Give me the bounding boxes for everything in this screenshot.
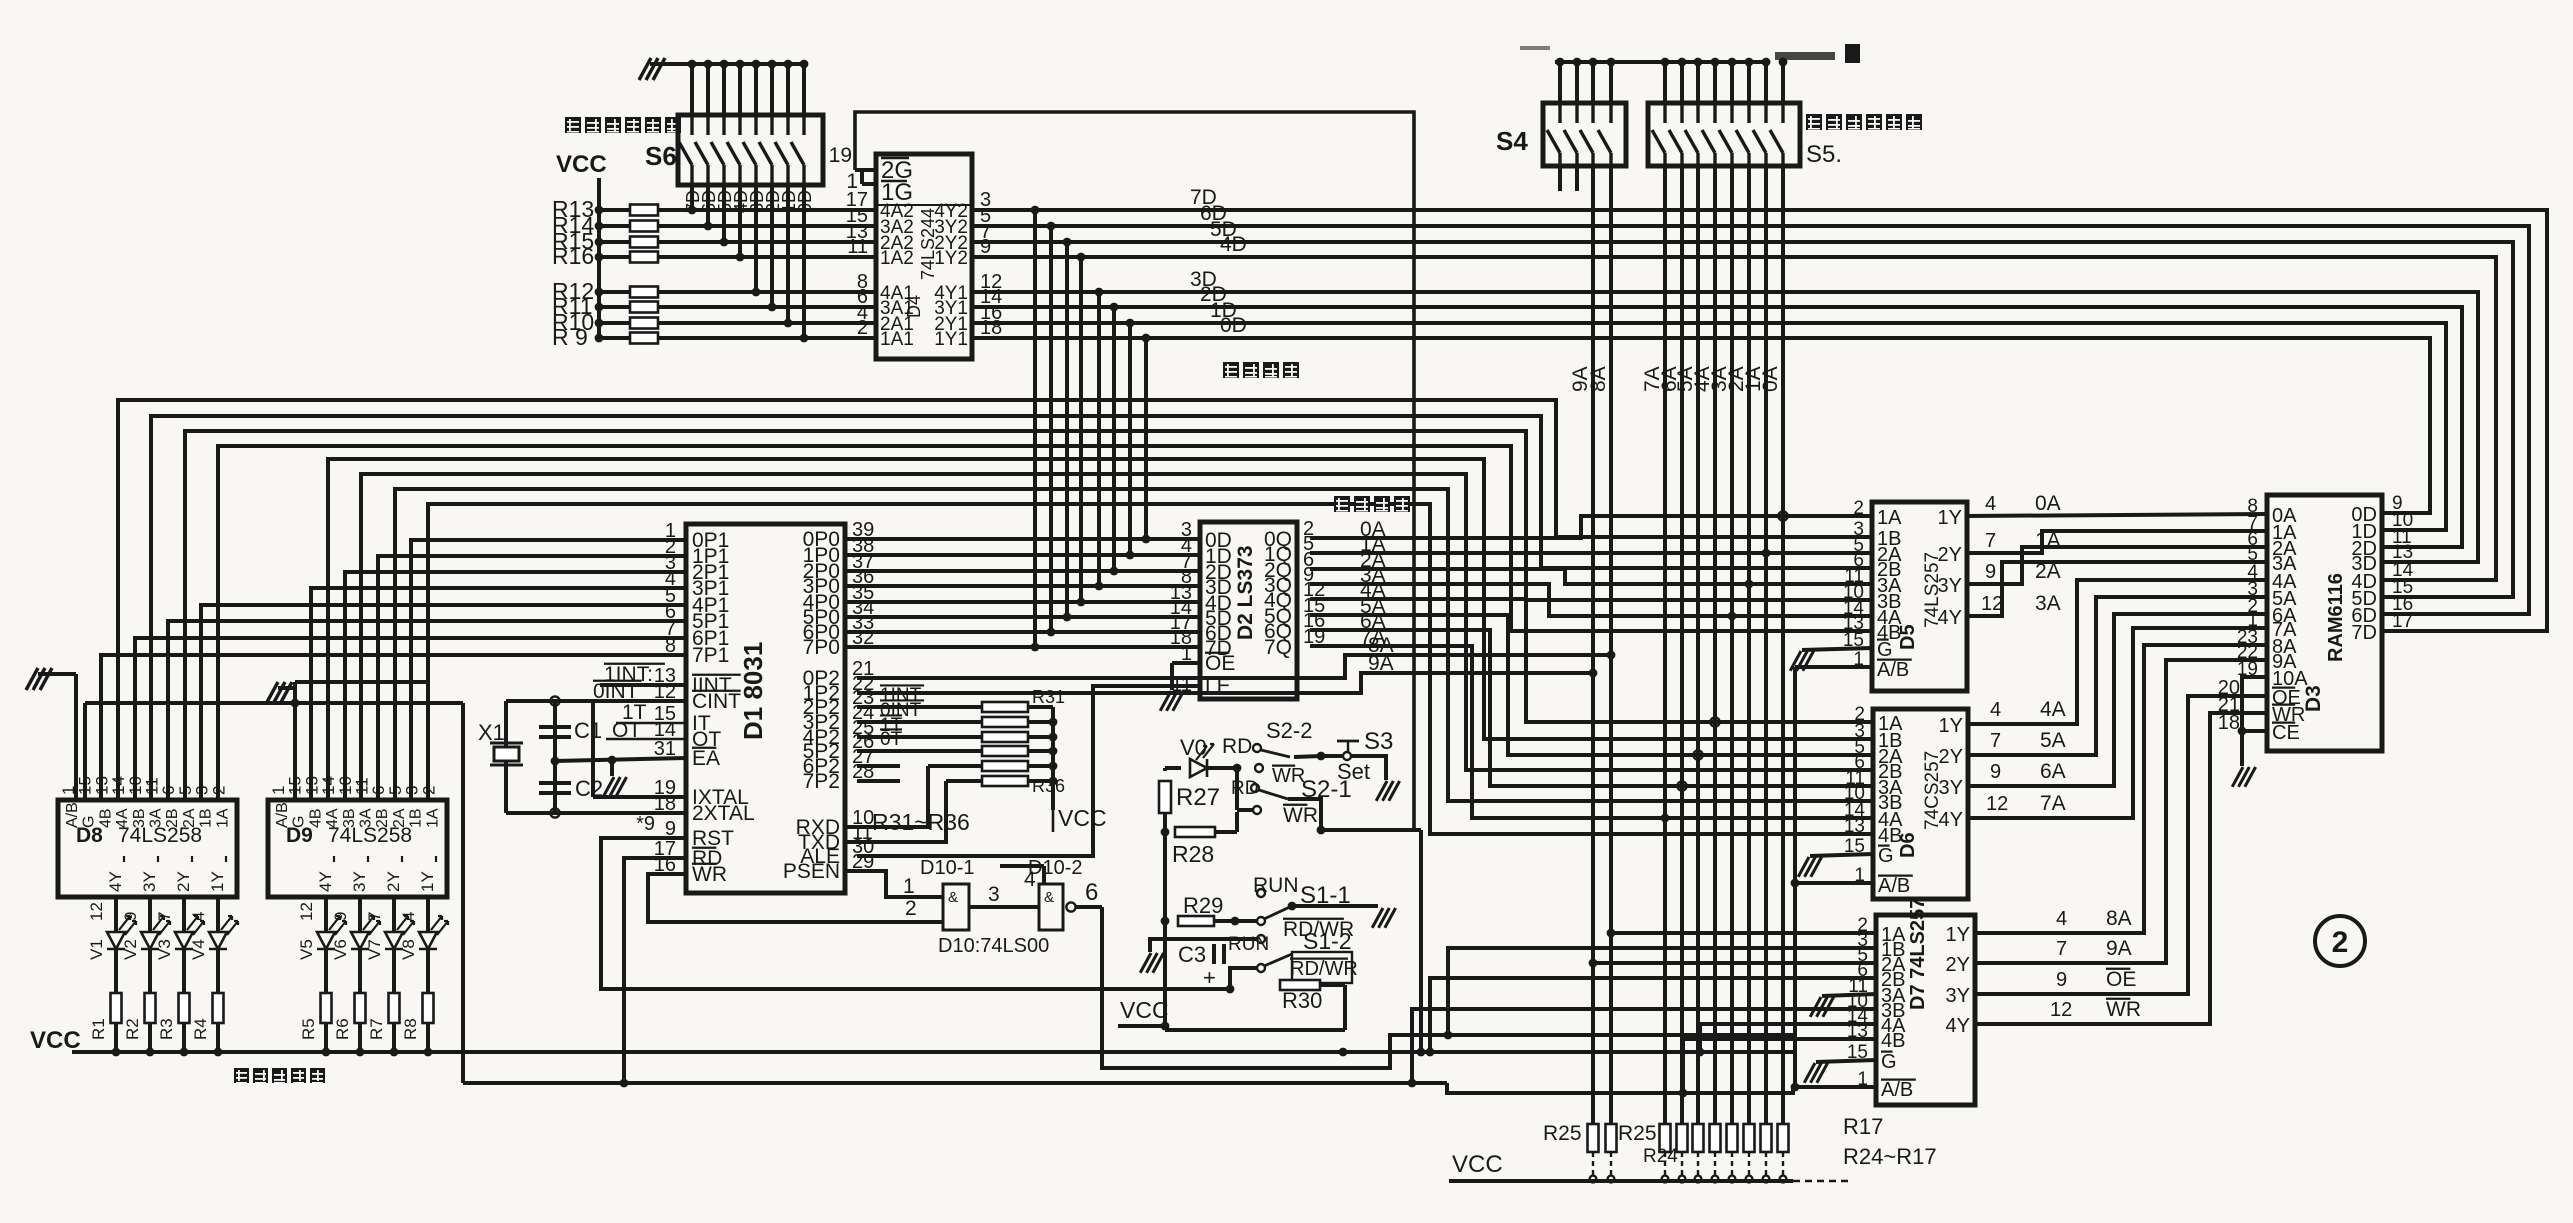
wire P0-4 [845,600,1200,604]
label R31~R36 [872,805,1107,835]
pin D3-18 [2218,712,2240,734]
wire P0-2 [845,569,1200,573]
svg-text:R5: R5 [299,1018,318,1040]
pin D2-6 [1303,549,1314,571]
resistor R28 [1172,812,1237,867]
pin D2-13 [1170,582,1192,604]
wire P0-5 [845,615,1200,619]
label addr 8A [1368,634,1394,657]
pin D2-15 [1303,595,1325,617]
wire bus 1D [972,323,2446,530]
label 5D vert [715,190,735,213]
svg-text:VCC: VCC [556,151,607,178]
svg-text:D4: D4 [904,295,924,318]
svg-text:S1-2: S1-2 [1303,928,1352,954]
wire C3 plus [1207,968,1257,993]
wire Gnet drop [461,703,465,1083]
resistor R36 [946,776,1053,786]
label vert 1A [1742,366,1765,392]
svg-text:2Y: 2Y [174,871,193,892]
svg-text:V2: V2 [121,939,140,960]
pin D3r-13 [2392,542,2413,563]
wire out9A [1975,660,2267,963]
svg-text:7A: 7A [2040,792,2066,815]
svg-text:D3: D3 [2302,685,2325,712]
svg-text:OE: OE [1205,652,1235,675]
wire addr2 [1310,569,1872,588]
label RDWR2 [1290,952,1358,983]
resistor R8 [401,949,434,1056]
svg-text:4A: 4A [114,808,131,828]
pin D3-7 [2247,513,2258,534]
pin D4-14 [980,286,1002,308]
wire D7 2B [1426,978,1876,1056]
svg-text:12: 12 [2050,999,2072,1021]
label p2 0T [880,729,903,750]
svg-text:4: 4 [2056,908,2067,930]
wire addr0 [1310,511,1872,538]
label vert 4A [1691,366,1714,392]
wire D7 3A gnd [1810,994,1876,1017]
wire D10 out [1066,879,1102,912]
wire 6A vert [1680,166,1684,1124]
pin D3-2 [2247,596,2258,617]
wire P2-28 stub [857,779,900,783]
resistor R12 [552,278,876,304]
wire D4 enable [855,112,1414,830]
resistor R13 [552,196,876,222]
svg-text:V0: V0 [1180,735,1207,760]
svg-text:1: 1 [903,875,915,898]
label vert 0A [1759,366,1782,392]
pin D6-10 [1844,783,1865,804]
wire S5 in 1783 [1781,62,1785,103]
wire S4 stub2 [1575,166,1579,191]
label VCC left [30,1027,81,1054]
svg-text:2: 2 [209,786,228,795]
svg-text:OE: OE [2106,968,2136,991]
wire tap 1D [1126,319,1135,560]
svg-text:D6: D6 [1897,832,1919,858]
wire D2 OE gnd [1160,663,1200,711]
label WR s22 [1272,765,1305,787]
pin D3-23 [2237,627,2258,648]
pin D5-13 [1843,613,1864,634]
label 4D vert [731,190,751,213]
label addr 7A [1360,626,1386,649]
resistor R4 [191,949,224,1056]
IC D1 8031 [686,524,845,893]
pin D3-6 [2247,529,2258,550]
wire S6-5D [720,185,729,246]
pin D3r-14 [2392,560,2414,581]
pin D3r-10 [2392,510,2413,531]
svg-text:R8: R8 [401,1018,420,1040]
svg-text:1A2: 1A2 [880,248,914,269]
pin D3-19 [2237,659,2258,680]
wire D7 4A [1696,1024,1876,1056]
label p2 1INT [880,685,924,706]
pin D1-35 [852,582,874,604]
wire P1-7 [101,655,686,800]
wire S5 in 1749 [1747,62,1751,103]
wire P1stair-D8-0 [118,400,1872,800]
wire S21 drop [1419,830,1423,1052]
svg-text:S3: S3 [1364,728,1393,755]
label addr 6A [1360,610,1386,633]
svg-text:1Y: 1Y [418,871,437,892]
svg-text:3Y: 3Y [1946,985,1970,1007]
svg-text:4Y: 4Y [1946,1015,1970,1037]
wire C3 wires [1165,937,1257,941]
label RD s22 [1222,735,1252,758]
wire P1stair-D9-0 [328,459,1873,800]
wire tap 5D [1063,238,1072,622]
wire out3A [1967,562,2267,616]
svg-text:4A: 4A [324,808,341,828]
svg-text:4D: 4D [1220,233,1247,256]
pin D1-38 [852,535,874,557]
svg-text:3A: 3A [2035,592,2061,615]
svg-text:9: 9 [980,236,991,258]
wire CE gnd [2232,677,2267,787]
svg-text:R27: R27 [1176,784,1220,811]
pin D2-17 [1170,612,1192,634]
svg-text:RAM6116: RAM6116 [2325,573,2347,662]
resistor R6 [333,949,366,1056]
pin D4-4 [857,302,868,324]
label p2 0INT [880,700,924,721]
wire D7 3B [1408,1009,1876,1087]
pin D3-3 [2247,579,2258,600]
wire addr6 [1310,630,1873,791]
label 地址置入开关 [1806,114,1922,168]
svg-text:12: 12 [1981,593,2003,615]
wire EA gnd [603,760,626,797]
pin D2-9 [1303,564,1314,586]
pin D3-5 [2247,544,2258,565]
wire bus 5D [972,242,2513,597]
wire VCC bottom [1449,1151,1848,1181]
wire tap 4D [1077,253,1086,607]
label vert 6A [1658,366,1681,392]
wire bus 3D [972,292,2478,562]
wire out0A [1967,492,2267,516]
label bus 6D [1200,202,1227,225]
pin D7-5 [1857,945,1868,966]
svg-text:7P2: 7P2 [803,770,840,793]
pin D7-1 [1857,1069,1868,1090]
wire D6 G gnd [1798,854,1873,877]
svg-text:R24: R24 [1643,1146,1678,1167]
label R36 [1032,776,1065,796]
wire out8A [1975,645,2267,933]
svg-text:2A: 2A [391,808,408,828]
resistor R14 [552,212,876,238]
svg-text:+: + [1203,965,1216,990]
pin D5-2 [1853,498,1864,519]
label S6 [645,141,677,171]
svg-text:2: 2 [857,317,868,339]
wire WR [648,874,943,922]
wire bus 0D [972,338,2430,513]
svg-text:2B: 2B [374,808,391,828]
capacitor C1 [539,718,602,743]
svg-text:4Y: 4Y [1939,809,1963,831]
svg-text:6A: 6A [2040,760,2066,783]
svg-text:1Y: 1Y [1938,507,1962,529]
label R25 [1543,1122,1582,1145]
svg-text:D1 8031: D1 8031 [738,642,768,740]
svg-text:1A: 1A [1877,507,1902,529]
pin D5-14 [1843,598,1865,619]
wire P0-0 [845,537,1200,541]
svg-text:R2: R2 [123,1018,142,1040]
svg-text:1Y: 1Y [1946,924,1970,946]
label 1D vert [779,190,799,213]
switch S6 [678,115,823,185]
label top smudge [1520,44,1860,63]
pin D3r-11 [2392,527,2412,548]
svg-text:R25: R25 [1543,1122,1582,1145]
svg-text:2Y: 2Y [1938,544,1962,566]
resistor R3 [157,949,190,1056]
wire P1stair-D9-3 [428,504,1873,834]
pin D6-14 [1844,800,1866,821]
pin D4-7 [980,221,991,243]
label 1T [616,701,686,724]
resistor bank 7 [1744,1124,1755,1182]
pin D4-16 [980,302,1002,324]
svg-text:C3: C3 [1178,942,1206,967]
resistor bank 3 [1677,1124,1688,1182]
svg-text:V6: V6 [331,939,350,960]
switch S1-2 [1228,928,1352,972]
svg-text:G: G [1877,639,1893,661]
svg-text:VCC: VCC [1452,1151,1503,1178]
wire D2 LE [857,686,1200,856]
svg-text:X1: X1 [478,720,505,745]
pin D2-5 [1303,533,1314,555]
pin D1-r23 [852,687,874,709]
label bus 3D [1190,268,1217,291]
pin D1-r10 [852,807,874,829]
svg-text:R4: R4 [191,1018,210,1040]
switch S4 [1496,103,1626,166]
pin D2-7 [1181,551,1192,573]
wire S6-4D [736,185,745,261]
svg-text:CINT: CINT [692,690,741,713]
pin D1-15 [654,703,676,725]
LED V1 [87,916,136,960]
wire tap 2D [1110,303,1119,576]
wire xtal top [506,696,593,705]
svg-text:C1: C1 [574,718,602,743]
wire gate6 route [1102,907,1793,1068]
wire bus 4D [972,257,2496,580]
svg-text:A/B: A/B [1878,875,1910,897]
IC D4 74LS244 [876,154,972,359]
svg-text:3B: 3B [131,808,148,828]
pin D1-33 [852,612,874,634]
IC D6 74CS257 [1873,709,1968,899]
wire 9A vert [1589,166,1598,1124]
label p2 1T [880,715,903,736]
label bus 2D [1200,283,1227,306]
resistor R31 [857,702,1053,712]
wire S3 gnd [1351,756,1400,801]
pin D3-8 [2247,496,2258,517]
LED V4 [189,916,238,960]
wire RD long [620,858,686,1087]
wire P1stair-D9-1 [361,474,1873,800]
resistor R5 [299,949,332,1056]
pin D2-4 [1181,535,1192,557]
switch S5 [1648,103,1800,166]
resistor R30 [1280,980,1345,1013]
pin D6-11 [1845,768,1865,789]
svg-text:3Y: 3Y [350,871,369,892]
wire S5 in 1665 [1663,62,1667,103]
label 1INT [600,663,686,686]
svg-text:G: G [1878,845,1894,867]
wire D5 AB [1795,665,1872,669]
svg-text:A/B: A/B [1881,1079,1913,1101]
wire Gnet [85,699,463,800]
pin D3-20 [2218,677,2240,699]
wire tap 7D [1031,206,1040,652]
label bus 0D [1220,314,1247,337]
label gate2 [905,897,917,920]
wire P1-2 [345,572,686,800]
wire P1-4 [201,605,686,800]
wire xtal mid [550,701,559,818]
pin D3-1 [2247,610,2258,631]
pin D6-6 [1854,752,1865,773]
svg-text:3B: 3B [341,808,358,828]
wire addr3 [1310,584,1872,620]
pin D5-6 [1853,550,1864,571]
wire VCC ctrl [1118,985,1345,1030]
pin D4-5 [980,205,991,227]
pin D1-4 [665,568,676,590]
pin D7-15 [1847,1042,1868,1063]
wire S6-3D [752,185,761,296]
pin D1-5 [665,585,676,607]
LED V6 [331,916,380,960]
wire S4 in 1560 [1558,62,1562,103]
crystal X1 [478,720,523,765]
wire addr1 [1310,549,1872,558]
wire outWR [1975,713,2267,1024]
pin D1-3 [665,552,676,574]
wire S45 top rail [1555,58,1787,67]
pin D1-r27 [852,746,874,768]
wire out2A [1967,547,2267,584]
label R31 [1032,687,1065,707]
wire out7A [1968,628,2267,818]
svg-text:V3: V3 [155,939,174,960]
svg-text:R29: R29 [1183,893,1223,918]
LED V2 [121,916,170,960]
svg-text:5A: 5A [2040,729,2066,752]
pin D3r-9 [2392,493,2403,514]
pin D4-13 [846,221,868,243]
label 口显示电路 [234,1068,325,1084]
resistor R7 [367,949,400,1056]
svg-text:12: 12 [1986,793,2008,815]
wire 8A vert [1607,166,1616,1124]
pin D1-2 [665,536,676,558]
wire EA [555,756,686,765]
wire C3 gnd [1140,939,1190,973]
wire P0-1 [845,553,1200,557]
pin D1-6 [665,601,676,623]
pin D3r-15 [2392,577,2413,598]
resistor R27 [1159,768,1220,1020]
label 0D vert [795,190,815,213]
label VCC [556,151,607,178]
capacitor C3 [1178,942,1226,990]
svg-text:7Q: 7Q [1264,636,1292,659]
svg-text:4Y: 4Y [1938,607,1962,629]
svg-text:V7: V7 [365,939,384,960]
pin D1-r24 [852,702,874,724]
wire P1-6 [135,638,686,800]
svg-text:1A: 1A [424,808,441,828]
svg-text:1B: 1B [408,808,425,828]
wire P1-5 [168,621,686,800]
svg-text:12: 12 [297,902,316,921]
wire S2-1 wr [1237,768,1253,810]
wire RXD [845,766,928,827]
pin D4-18 [980,317,1002,339]
pin D2-14 [1170,597,1192,619]
LED V3 [155,916,204,960]
wire S5 in 1715 [1713,62,1717,103]
resistor bank 5 [1710,1124,1721,1182]
pin D6-2 [1854,704,1865,725]
svg-text:2Y: 2Y [384,871,403,892]
wire VCC rail bottom [72,1048,1793,1057]
svg-text:18: 18 [2218,712,2240,734]
pin D3-21 [2218,694,2240,716]
wire tap 3D [1095,288,1104,591]
pin D3r-16 [2392,594,2413,615]
wire out4A [1968,580,2267,724]
svg-text:S6: S6 [645,141,677,171]
resistor R29 [1178,893,1239,926]
svg-text:4: 4 [1990,699,2001,721]
label 6D vert [699,190,719,213]
label addr 1A [1360,533,1386,556]
LED V7 [365,916,414,960]
wire addr7 [1310,646,1873,822]
svg-text:4B: 4B [1881,1030,1905,1052]
resistor R35 [928,761,1053,771]
svg-text:R17: R17 [1843,1114,1883,1139]
svg-text:4B: 4B [307,808,324,828]
wire S4 in 1593 [1591,62,1595,103]
label bus 5D [1210,218,1237,241]
pin D3-4 [2247,562,2258,583]
svg-text:1Y1: 1Y1 [934,329,968,350]
IC D9 74LS258 [268,776,447,925]
label vert 9A [1569,366,1592,392]
svg-text:18: 18 [980,317,1002,339]
svg-text:7P0: 7P0 [803,636,840,659]
svg-text:WR: WR [2106,998,2141,1021]
